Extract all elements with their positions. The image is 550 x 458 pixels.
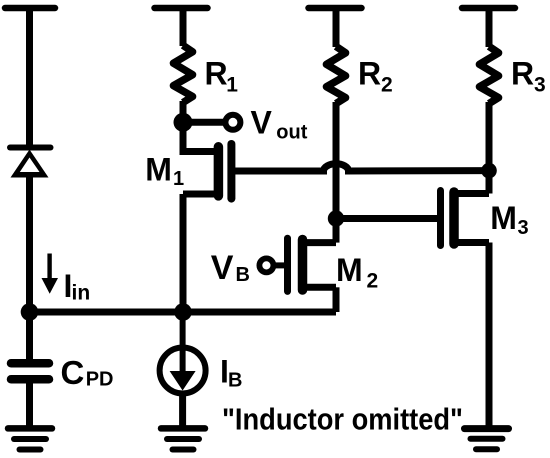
photodiode D1 (10, 148, 51, 178)
wire photodiode to input node (26, 177, 33, 313)
svg-text:B: B (236, 264, 250, 286)
svg-text:R: R (205, 56, 228, 92)
svg-text:V: V (211, 249, 234, 287)
wire R1 to Vout node (180, 101, 187, 122)
current arrow Iin (42, 254, 59, 294)
wire M2 drain node to M3 gate (336, 215, 441, 222)
wire M3 source to ground (486, 243, 493, 428)
supply rail (col 4) (462, 5, 515, 12)
node M2 drain junction (328, 210, 344, 226)
ground (under IB) (161, 428, 205, 449)
svg-text:1: 1 (226, 74, 238, 97)
ground (under CPD) (8, 428, 52, 449)
resistor R2 (326, 46, 345, 103)
resistor R3 (479, 46, 498, 103)
node M1 source junction (174, 303, 192, 321)
transistor M2 (273, 219, 336, 313)
wire M1 gate to R3 node (with hop over R2 wire) (231, 164, 489, 171)
wire Vout node to M1 drain (180, 122, 187, 155)
transistor M3 (441, 171, 490, 246)
svg-text:3: 3 (518, 217, 529, 239)
supply rail (col 2) (155, 5, 208, 12)
supply rail (col 3) (309, 5, 362, 12)
transistor M1 (183, 144, 231, 199)
svg-text:B: B (228, 370, 242, 392)
svg-text:"Inductor omitted": "Inductor omitted" (222, 402, 463, 437)
terminal VB (259, 258, 273, 272)
wire M1 source down to node (180, 194, 187, 312)
svg-text:C: C (61, 354, 85, 391)
svg-text:R: R (511, 56, 534, 92)
node input junction (21, 303, 39, 321)
svg-text:M: M (145, 152, 172, 188)
svg-text:2: 2 (367, 269, 379, 292)
svg-text:1: 1 (173, 168, 184, 190)
node Vout junction (174, 113, 193, 132)
wire col2 rail to R1 (180, 8, 187, 46)
wire R2 to M2 drain node (333, 102, 340, 219)
svg-text:in: in (72, 281, 91, 304)
wire bottom horizontal bus (30, 309, 337, 316)
wire col3 rail to R2 (333, 8, 340, 47)
svg-text:2: 2 (381, 73, 393, 96)
wire IB to ground (179, 394, 186, 428)
resistor R1 (173, 45, 192, 102)
svg-text:PD: PD (86, 369, 114, 391)
wire Vout node to terminal (183, 119, 224, 126)
wire CPD to ground (26, 383, 33, 427)
terminal Vout (225, 115, 240, 130)
wire col4 rail to R3 (486, 8, 493, 47)
capacitor CPD (11, 363, 49, 379)
wire R3 to M3 drain node (486, 102, 493, 171)
svg-text:V: V (251, 104, 273, 140)
svg-text:R: R (358, 56, 381, 92)
ground (bottom right) (465, 429, 509, 450)
wire col1 rail to photodiode (26, 8, 33, 147)
svg-text:M: M (336, 252, 363, 288)
current source IB (160, 312, 206, 394)
svg-text:out: out (276, 122, 307, 144)
svg-text:3: 3 (534, 73, 546, 96)
svg-text:M: M (490, 200, 517, 236)
supply rail (col 1) (5, 5, 55, 12)
node M3 drain junction (481, 163, 497, 179)
wire input node to CPD (26, 312, 33, 360)
